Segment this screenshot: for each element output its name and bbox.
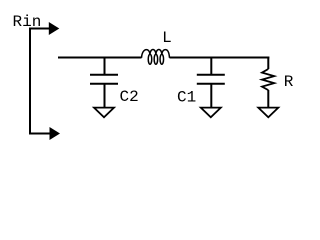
wire: top input arrow shaft: [30, 28, 50, 30]
capacitor C2: [90, 75, 118, 84]
inductor L: [142, 49, 170, 64]
wire: input port vertical: [29, 28, 31, 135]
wire: bottom input arrow shaft: [30, 133, 51, 135]
wire: inductor to output corner: [170, 57, 270, 59]
wire: C2 top stub: [104, 58, 106, 75]
svg-text:R: R: [284, 73, 294, 91]
resistor R: [262, 69, 274, 90]
ground: R: [258, 108, 278, 118]
wire: R bottom stub: [267, 90, 269, 107]
wire: output corner down to resistor: [267, 57, 269, 70]
ground: C1: [201, 108, 221, 118]
wire: C1 top stub: [210, 58, 212, 75]
svg-text:C1: C1: [177, 89, 196, 107]
wire: C2 bottom stub: [104, 84, 106, 107]
ground: C2: [94, 108, 114, 118]
capacitor C1: [197, 75, 225, 84]
wire: left end to inductor: [58, 57, 142, 59]
svg-text:L: L: [162, 29, 172, 47]
arrowhead: top input arrow: [49, 22, 60, 35]
wire: C1 bottom stub: [210, 84, 212, 107]
svg-text:C2: C2: [120, 88, 139, 106]
arrowhead: bottom input arrow: [50, 127, 61, 140]
